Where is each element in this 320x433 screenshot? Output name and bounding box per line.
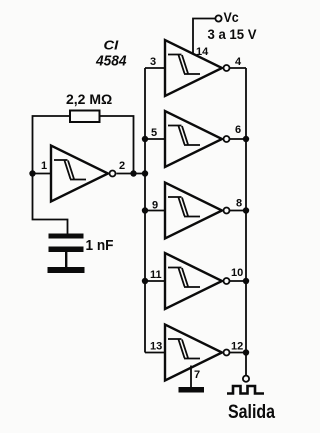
wire pin 7 bbox=[190, 366, 192, 388]
svg-text:2,2 MΩ: 2,2 MΩ bbox=[66, 91, 112, 107]
wire input pin 1 bbox=[33, 173, 52, 175]
wire input bus bbox=[144, 68, 146, 353]
svg-text:3: 3 bbox=[150, 56, 156, 68]
node bus pin 5 bbox=[142, 136, 148, 142]
wire output pin 4 bbox=[230, 67, 247, 69]
svg-text:6: 6 bbox=[235, 124, 241, 136]
node bus pin 8 bbox=[243, 207, 249, 213]
wire output bus bbox=[245, 68, 247, 375]
square wave symbol bbox=[227, 386, 264, 394]
svg-text:13: 13 bbox=[150, 341, 162, 353]
op-amp U6 inverter pins 13-12 bbox=[165, 325, 230, 381]
op-amp U3 inverter pins 5-6 bbox=[165, 111, 230, 167]
node feedback junction bbox=[130, 170, 136, 176]
ground pin 7 bbox=[179, 387, 205, 393]
capacitor C1 bbox=[49, 234, 84, 268]
svg-text:3 a 15 V: 3 a 15 V bbox=[208, 27, 257, 42]
wire output pin 10 bbox=[230, 280, 247, 282]
wire feedback left bbox=[33, 116, 71, 174]
svg-text:1 nF: 1 nF bbox=[86, 238, 114, 254]
svg-text:8: 8 bbox=[236, 198, 242, 210]
wire output pin 8 bbox=[230, 210, 247, 212]
node bus pin 11 bbox=[142, 278, 148, 284]
op-amp U5 inverter pins 11-10 bbox=[165, 253, 230, 309]
op-amp U1 oscillator inverter bbox=[51, 146, 116, 202]
node pin 1 junction bbox=[29, 170, 35, 176]
node bus pin 6 bbox=[243, 136, 249, 142]
ground capacitor bbox=[48, 267, 85, 273]
label CI 4584 bbox=[95, 38, 127, 70]
wire output pin 12 bbox=[230, 352, 247, 354]
wire Vc supply to pin 14 bbox=[193, 19, 215, 55]
node bus pin 10 bbox=[243, 278, 249, 284]
resistor R1 2,2 MOhm bbox=[70, 111, 100, 123]
svg-text:9: 9 bbox=[152, 200, 158, 212]
wire input pin 5 bbox=[145, 138, 165, 140]
svg-text:12: 12 bbox=[231, 341, 243, 353]
svg-text:2: 2 bbox=[119, 160, 125, 172]
wire input pin 9 bbox=[145, 210, 165, 212]
terminal Vc bbox=[215, 15, 221, 21]
op-amp U2 inverter pins 3-4 bbox=[165, 40, 230, 96]
svg-text:Salida: Salida bbox=[228, 401, 275, 423]
wire input pin 3 bbox=[145, 67, 165, 69]
svg-text:1: 1 bbox=[41, 160, 47, 172]
svg-text:10: 10 bbox=[231, 267, 243, 279]
terminal output bbox=[243, 376, 249, 382]
svg-text:4: 4 bbox=[235, 56, 242, 68]
wire to capacitor bbox=[33, 174, 68, 234]
op-amp U4 inverter pins 9-8 bbox=[165, 183, 230, 239]
node bus pin 12 bbox=[243, 349, 249, 355]
node bus pin 9 bbox=[142, 207, 148, 213]
svg-text:11: 11 bbox=[150, 269, 162, 281]
wire input pin 13 bbox=[145, 352, 165, 354]
svg-text:4584: 4584 bbox=[95, 53, 127, 70]
wire output pin 2 bbox=[117, 173, 146, 175]
wire input pin 11 bbox=[145, 280, 165, 282]
svg-text:5: 5 bbox=[151, 127, 157, 139]
svg-text:Vc: Vc bbox=[224, 10, 240, 25]
wire feedback right bbox=[100, 116, 134, 174]
svg-text:CI: CI bbox=[104, 38, 119, 53]
node input bus junction bbox=[142, 170, 148, 176]
svg-text:7: 7 bbox=[194, 369, 200, 381]
wire output pin 6 bbox=[230, 138, 247, 140]
